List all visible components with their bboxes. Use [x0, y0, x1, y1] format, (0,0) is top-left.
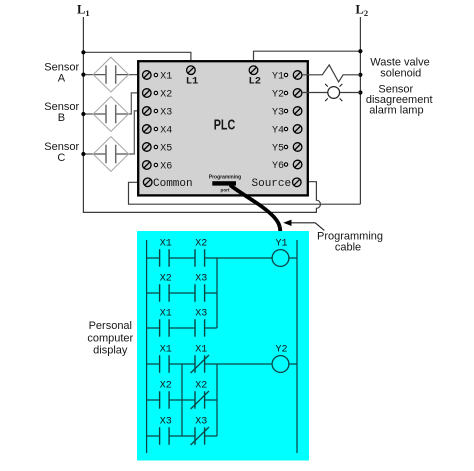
wire L1 branch to PLC L1 terminal — [83, 52, 190, 66]
sensor A diamond — [93, 57, 128, 92]
ladder rung 3 wires — [147, 327, 217, 329]
wire sensor A row to X1 — [83, 74, 142, 76]
svg-text:Y1: Y1 — [272, 72, 284, 83]
svg-text:X1: X1 — [160, 238, 172, 249]
svg-text:computer: computer — [87, 333, 133, 345]
terminal X6 — [143, 161, 173, 173]
svg-text:cable: cable — [335, 242, 361, 254]
terminal Y4 — [272, 125, 302, 137]
wire Common to L2 rail — [129, 182, 361, 204]
label Sensor C — [44, 141, 79, 164]
svg-text:solenoid: solenoid — [380, 68, 421, 80]
svg-text:display: display — [93, 344, 128, 356]
contact X3 NC rung6 — [191, 416, 209, 445]
svg-text:Y6: Y6 — [272, 161, 284, 172]
junction column rungs 4-6 middle — [181, 364, 183, 436]
svg-text:Source: Source — [252, 178, 292, 190]
terminal Y5 — [272, 143, 302, 155]
svg-text:Y2: Y2 — [275, 344, 287, 355]
contact X2 rung5 — [160, 380, 172, 408]
svg-text:X2: X2 — [160, 90, 172, 101]
svg-text:Common: Common — [153, 178, 193, 190]
terminal Y1 — [272, 71, 302, 83]
wire sensor B row to X2 — [83, 93, 142, 114]
ladder rung 5 wires — [147, 399, 217, 401]
svg-text:A: A — [58, 73, 66, 85]
svg-text:X1: X1 — [160, 308, 172, 319]
wire L2 branch to PLC L2 terminal — [254, 51, 361, 66]
terminal screw L2 — [249, 66, 258, 75]
svg-text:PLC: PLC — [214, 117, 236, 133]
contact X3 rung6 — [160, 416, 172, 444]
svg-text:L1: L1 — [77, 3, 90, 19]
svg-text:X2: X2 — [160, 380, 172, 391]
svg-text:alarm lamp: alarm lamp — [369, 105, 423, 117]
svg-text:X1: X1 — [195, 344, 207, 355]
wire L2 right rail — [359, 17, 361, 204]
svg-text:X5: X5 — [160, 144, 172, 155]
junction column rungs 1-3 — [216, 258, 218, 328]
contact X2 rung2 — [160, 273, 172, 301]
contact X3 rung2 — [195, 273, 207, 301]
computer display screen — [137, 231, 309, 461]
svg-text:Programming: Programming — [317, 230, 383, 242]
svg-text:Y5: Y5 — [272, 144, 284, 155]
terminal X4 — [143, 125, 173, 137]
terminal Y2 — [272, 89, 302, 101]
terminal X1 — [143, 71, 173, 83]
ladder rung 4 wires — [147, 363, 297, 365]
svg-text:X4: X4 — [160, 126, 172, 137]
svg-text:Waste valve: Waste valve — [370, 56, 430, 68]
svg-text:X3: X3 — [160, 416, 172, 427]
terminal Common — [143, 178, 192, 190]
contact X3 rung3 — [195, 308, 207, 336]
contact X1 NC rung4 — [191, 344, 209, 373]
arrow leader to cable — [283, 220, 324, 231]
svg-text:X3: X3 — [195, 308, 207, 319]
terminal Source — [252, 178, 302, 190]
label Sensor A — [44, 62, 79, 85]
svg-text:X1: X1 — [160, 344, 172, 355]
wire L1 left rail and bottom run to Source — [83, 17, 320, 212]
ladder rung 1 wires — [147, 257, 297, 259]
lamp on Y2 — [302, 84, 361, 101]
ladder rung 2 wires — [147, 292, 217, 294]
junction dots left rail — [81, 50, 85, 156]
svg-text:L2: L2 — [248, 76, 261, 88]
svg-text:Y1: Y1 — [275, 238, 287, 249]
contact X2 rung1 — [195, 238, 207, 266]
contact X1 rung3 — [160, 308, 172, 336]
coil Y2 — [272, 344, 289, 372]
svg-text:X3: X3 — [160, 108, 172, 119]
label Personal computer display — [87, 320, 133, 356]
label Programming cable — [317, 230, 383, 253]
ladder right rail — [296, 240, 298, 453]
junction column rungs 4-6 right — [216, 364, 218, 436]
svg-text:C: C — [57, 152, 65, 164]
coil Y1 — [272, 238, 289, 266]
terminal Y3 — [272, 107, 302, 119]
terminal X2 — [143, 89, 173, 101]
terminal screw L1 — [187, 66, 196, 75]
junction dots right rail — [358, 49, 362, 94]
ladder rung 6 wires — [147, 435, 217, 437]
solenoid load on Y1 — [302, 65, 361, 82]
svg-text:Y4: Y4 — [272, 126, 284, 137]
terminal X5 — [143, 143, 173, 155]
svg-text:B: B — [58, 112, 65, 124]
svg-text:L2: L2 — [356, 3, 369, 19]
PLC box U1 — [138, 61, 308, 195]
svg-text:X3: X3 — [195, 273, 207, 284]
svg-text:X2: X2 — [195, 238, 207, 249]
programming cable — [231, 186, 280, 232]
contact X1 rung1 — [160, 238, 172, 266]
svg-text:X2: X2 — [195, 380, 207, 391]
terminal Y6 — [272, 160, 302, 172]
svg-text:L1: L1 — [186, 76, 199, 88]
svg-text:X6: X6 — [160, 162, 172, 173]
svg-text:Y3: Y3 — [272, 108, 284, 119]
svg-text:X2: X2 — [160, 273, 172, 284]
svg-text:X3: X3 — [195, 416, 207, 427]
contact X1 rung4 — [160, 344, 172, 372]
svg-text:Personal: Personal — [89, 320, 132, 332]
wire sensor C row to X3 — [83, 111, 142, 154]
terminal X3 — [143, 107, 173, 119]
label Waste valve solenoid — [370, 56, 430, 79]
sensor C diamond — [93, 137, 128, 172]
programming port — [209, 175, 242, 193]
svg-text:Y2: Y2 — [272, 90, 284, 101]
svg-text:Programming: Programming — [209, 175, 242, 181]
svg-text:X1: X1 — [160, 72, 172, 83]
svg-text:port: port — [221, 188, 230, 193]
sensor B diamond — [93, 97, 128, 132]
ladder left rail — [146, 240, 148, 453]
contact X2 NC rung5 — [191, 380, 209, 409]
label Sensor B — [44, 101, 79, 124]
label Sensor disagreement alarm lamp — [366, 84, 433, 117]
